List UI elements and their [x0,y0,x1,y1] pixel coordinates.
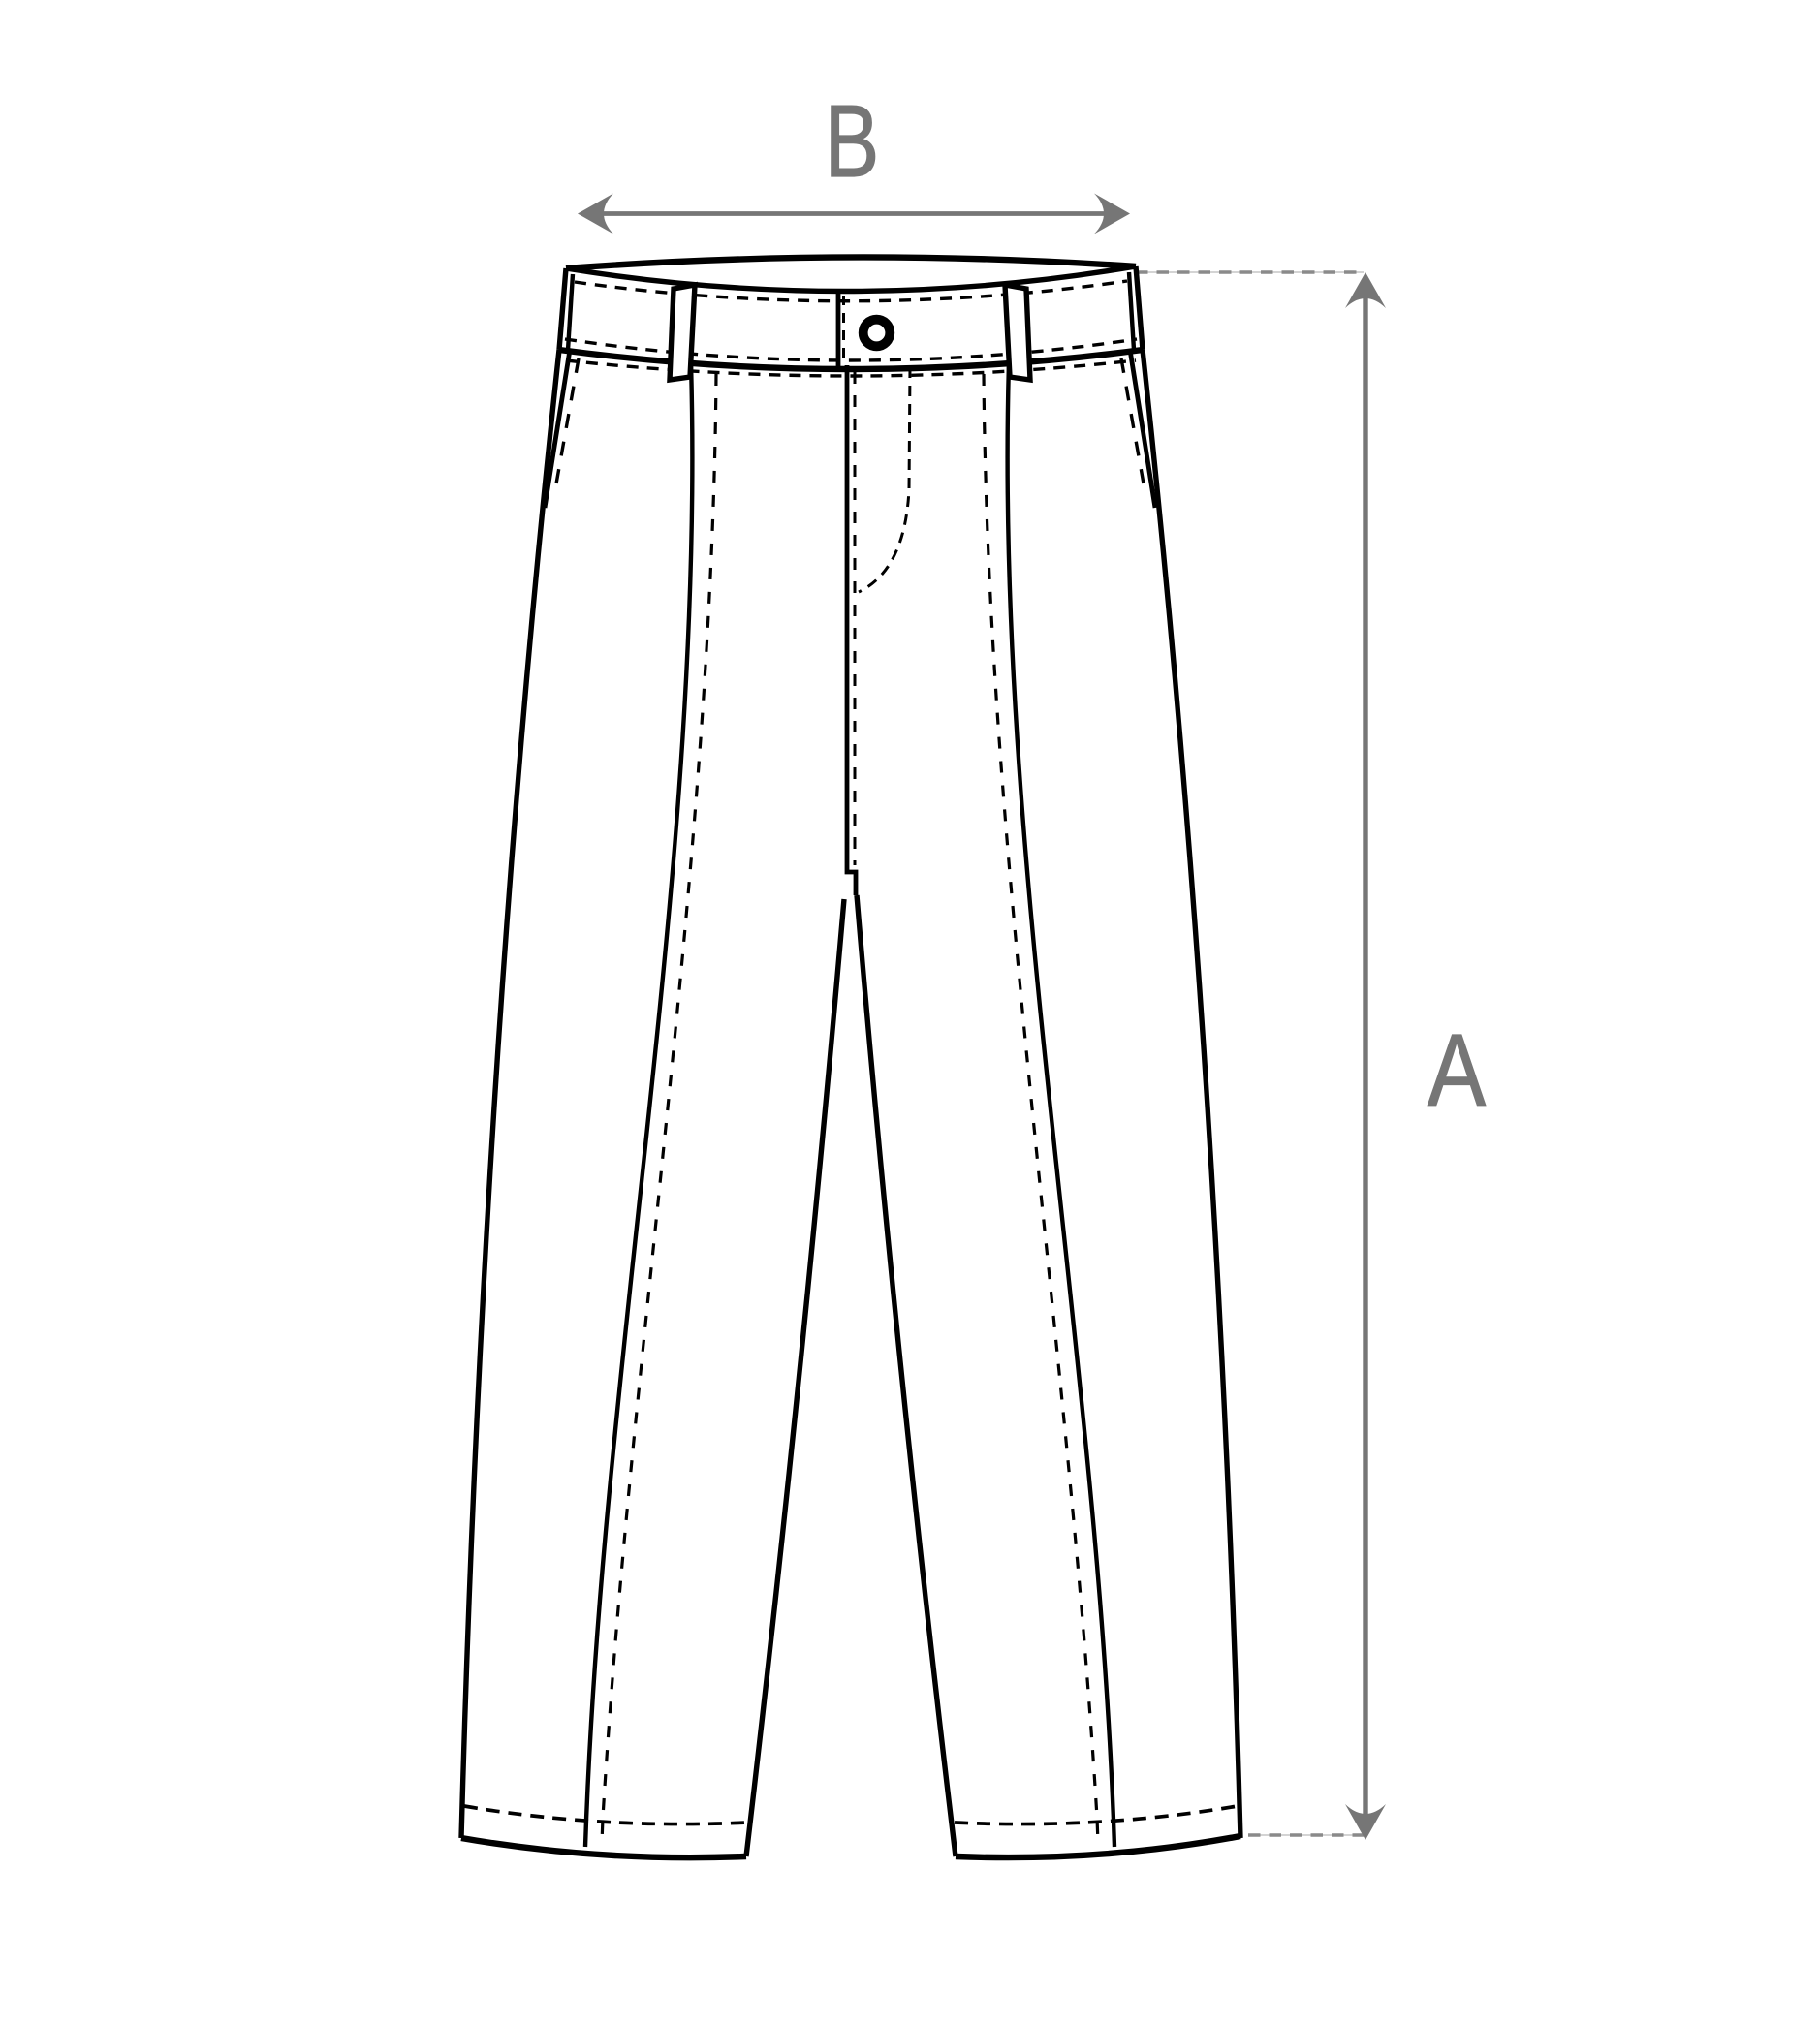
right pocket opening [1130,350,1155,508]
waistband top front edge [566,266,1136,292]
yoke stitching below waistband [566,360,1136,376]
waistband left side edge [559,268,566,350]
belt loop right [1005,285,1030,380]
belt loop left [670,285,695,380]
right outer seam [1143,350,1240,1838]
waistband bottom edge [559,350,1143,369]
left crease [585,363,692,1847]
dimension arrow A [1345,272,1386,1840]
center front seam on waistband [836,291,841,368]
left outer seam [461,350,559,1838]
fly stitching vertical [854,372,857,865]
right hem [956,1836,1240,1857]
svg-text:A: A [1428,1013,1486,1128]
waistband left end inner edge [568,274,573,350]
svg-text:B: B [825,84,880,199]
left pocket stitching [555,358,579,489]
right pleat stitching [984,374,1098,1843]
left pocket opening [545,350,570,508]
left hem stitching [464,1806,747,1824]
button [863,320,891,347]
waistband bottom stitching [565,339,1137,360]
waistband top stitching [575,281,1127,301]
fly J stitching [859,367,910,592]
left inseam [746,899,844,1856]
right pocket stitching [1121,358,1145,489]
extension line bottom [1248,1834,1364,1836]
dimension arrow B [578,194,1130,234]
right hem stitching [955,1806,1238,1824]
right crease [1008,363,1114,1847]
left hem [461,1838,746,1857]
waistband right side edge [1136,266,1143,350]
right inseam [857,895,956,1856]
waistband top opening back edge [566,257,1136,268]
waistband right end inner edge [1129,272,1134,350]
extension line top [1136,271,1364,273]
center front stitching on waistband [842,296,845,365]
left pleat stitching [602,374,716,1843]
fly center front seam [847,365,856,895]
